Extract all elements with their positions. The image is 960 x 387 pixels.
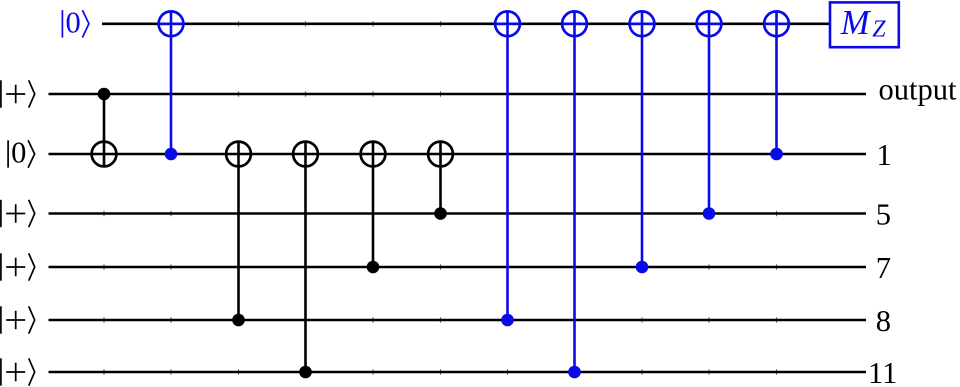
wire: vertical connector column 10: [775, 11, 778, 154]
cross bar inside target column 7: [562, 22, 587, 25]
target circle (XOR) on q2 column 0: [92, 142, 117, 167]
state label ket0 q2: [28, 140, 34, 167]
CNOT gate column 0: control q1, target q2: [92, 88, 117, 167]
wire: vertical connector column 7: [573, 11, 576, 372]
wire q3: [49, 212, 867, 215]
wire: vertical connector column 6: [506, 11, 509, 320]
target circle (XOR) on q2 column 2: [226, 142, 251, 167]
wire: vertical connector column 0: [103, 94, 106, 166]
cross bar inside target column 6: [495, 22, 520, 25]
CNOT gate column 2: control q5, target q2: [226, 142, 251, 327]
svg-text:7: 7: [876, 251, 891, 285]
svg-text:11: 11: [868, 356, 897, 387]
wire q6: [49, 371, 867, 374]
target circle (XOR) on q0 column 7: [562, 11, 587, 36]
svg-text:output: output: [879, 73, 957, 107]
target circle (XOR) on q0 column 1: [159, 11, 184, 36]
cross bar inside target column 9: [697, 22, 722, 25]
state label ket+ q5: [29, 306, 35, 333]
target circle (XOR) on q2 column 4: [361, 142, 386, 167]
svg-text:8: 8: [876, 304, 891, 338]
state label ket+ q1: [29, 80, 35, 107]
svg-text:1: 1: [877, 138, 892, 172]
target circle (XOR) on q0 column 9: [697, 11, 722, 36]
wire q0 (ancilla): [102, 22, 829, 25]
control dot on q5 column 2: [232, 314, 245, 327]
target circle (XOR) on q0 column 8: [630, 11, 655, 36]
wire: vertical connector column 5: [439, 142, 442, 214]
svg-text:Z: Z: [872, 17, 886, 43]
wire: vertical connector column 8: [641, 11, 644, 267]
target circle (XOR) on q2 column 5: [428, 142, 453, 167]
control dot on q6 column 3: [299, 366, 312, 379]
svg-text:0: 0: [11, 136, 26, 170]
svg-text:0: 0: [65, 5, 80, 39]
cross bar inside target column 10: [764, 22, 789, 25]
wire: vertical connector column 4: [372, 142, 375, 267]
wire q2: [49, 153, 867, 156]
control dot on q2 column 1: [165, 148, 178, 161]
target circle (XOR) on q2 column 3: [293, 142, 318, 167]
CNOT gate column 4: control q4, target q2: [361, 142, 386, 274]
CNOT gate column 8: control q4, target q0: [630, 11, 655, 273]
control dot on q3 column 5: [434, 207, 447, 220]
state label ket+ q3: [29, 200, 35, 227]
CNOT gate column 7: control q6, target q0: [562, 11, 587, 378]
CNOT gate column 10: control q2, target q0: [764, 11, 789, 160]
wire q5: [49, 319, 867, 322]
control dot on q1 column 0: [98, 88, 111, 101]
state label ket+ q6: [29, 358, 35, 385]
wire: vertical connector column 9: [708, 11, 711, 213]
wire: vertical connector column 3: [304, 142, 307, 372]
control dot on q4 column 8: [636, 261, 649, 274]
cross bar inside target column 1: [159, 22, 184, 25]
wire: vertical connector column 2: [237, 142, 240, 320]
control dot on q2 column 10: [770, 148, 783, 161]
CNOT gate column 9: control q3, target q0: [697, 11, 722, 219]
state label ket0 (blue) q0: [82, 10, 89, 37]
control dot on q3 column 9: [703, 207, 716, 220]
target circle (XOR) on q0 column 10: [764, 11, 789, 36]
svg-text:5: 5: [876, 198, 891, 232]
column tick marks: [104, 21, 777, 375]
measurement box M_Z: [830, 2, 899, 47]
CNOT gate column 6: control q5, target q0: [495, 11, 520, 326]
CNOT gate column 1: control q2, target q0: [159, 11, 184, 160]
state label ket+ q4: [29, 253, 35, 280]
wire q1: [49, 93, 867, 96]
control dot on q4 column 4: [367, 261, 380, 274]
target circle (XOR) on q0 column 6: [495, 11, 520, 36]
wire: vertical connector column 1: [170, 11, 173, 154]
control dot on q5 column 6: [501, 314, 514, 327]
cross bar inside target column 8: [630, 22, 655, 25]
CNOT gate column 3: control q6, target q2: [293, 142, 318, 379]
CNOT gate column 5: control q3, target q2: [428, 142, 453, 220]
svg-text:M: M: [840, 4, 872, 42]
wire q4: [49, 266, 867, 269]
control dot on q6 column 7: [568, 366, 581, 379]
